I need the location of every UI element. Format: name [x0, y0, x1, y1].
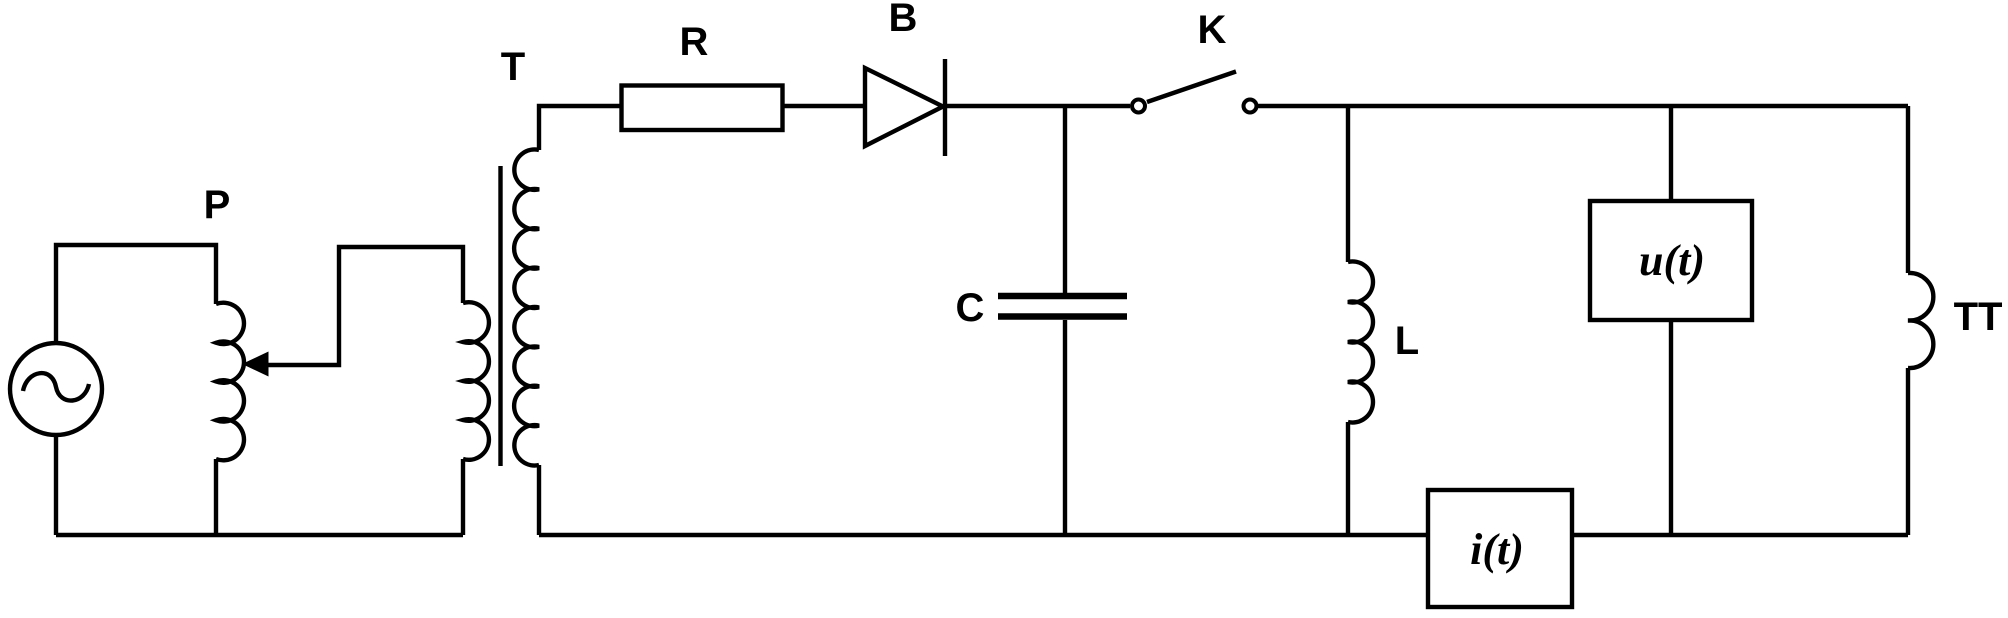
wire AC bottom	[54, 435, 58, 535]
wire bottom rail mid	[539, 533, 1426, 537]
autotransformer P coil	[216, 303, 244, 461]
wire top rail right	[1258, 104, 1908, 108]
wire T primary bottom	[461, 459, 465, 535]
svg-text:i(t): i(t)	[1470, 525, 1524, 574]
wire resistor to diode	[783, 104, 865, 108]
wire T secondary top to resistor	[539, 106, 621, 150]
svg-text:B: B	[889, 0, 918, 40]
svg-text:K: K	[1198, 8, 1227, 52]
svg-text:TT: TT	[1954, 295, 2003, 339]
switch K left contact	[1132, 100, 1145, 113]
wire P bottom	[214, 459, 218, 535]
wire u(t) bottom	[1669, 320, 1673, 535]
svg-text:R: R	[680, 20, 709, 64]
svg-text:T: T	[501, 45, 525, 89]
wire TT top	[1906, 106, 1910, 273]
wire T secondary bottom	[537, 465, 541, 535]
svg-text:C: C	[956, 286, 985, 330]
wire bottom rail right	[1574, 533, 1908, 537]
capacitor C top plate	[998, 293, 1127, 300]
wire bottom rail left	[56, 533, 463, 537]
transformer T primary coil	[463, 302, 489, 460]
svg-text:P: P	[204, 183, 231, 227]
wire u(t) top	[1669, 106, 1673, 201]
diode B cathode bar	[943, 59, 947, 156]
resistor R	[622, 86, 783, 131]
inductor L coil	[1348, 262, 1373, 423]
test object TT coil	[1908, 273, 1933, 368]
switch K right contact	[1244, 100, 1257, 113]
tap arrowhead on P	[242, 352, 269, 377]
wire capacitor top	[1063, 106, 1067, 293]
AC source G1	[10, 343, 102, 435]
wire diode to switch	[945, 104, 1130, 108]
svg-text:u(t): u(t)	[1639, 236, 1705, 285]
svg-text:L: L	[1395, 319, 1419, 363]
AC sine symbol	[23, 373, 89, 400]
capacitor C bottom plate	[998, 313, 1127, 320]
wire capacitor bottom	[1063, 320, 1067, 535]
voltmeter box u(t)	[1590, 201, 1752, 320]
transformer T secondary coil	[514, 150, 539, 466]
switch K blade	[1147, 72, 1236, 103]
ammeter box i(t)	[1428, 490, 1572, 607]
wire inductor L bottom	[1346, 422, 1350, 535]
wire tap arrow to T primary top	[266, 247, 463, 365]
diode B triangle	[865, 68, 943, 146]
wire AC top to P	[56, 245, 216, 343]
wire inductor L top	[1346, 106, 1350, 262]
wire TT bottom	[1906, 368, 1910, 535]
transformer T core	[498, 166, 502, 466]
